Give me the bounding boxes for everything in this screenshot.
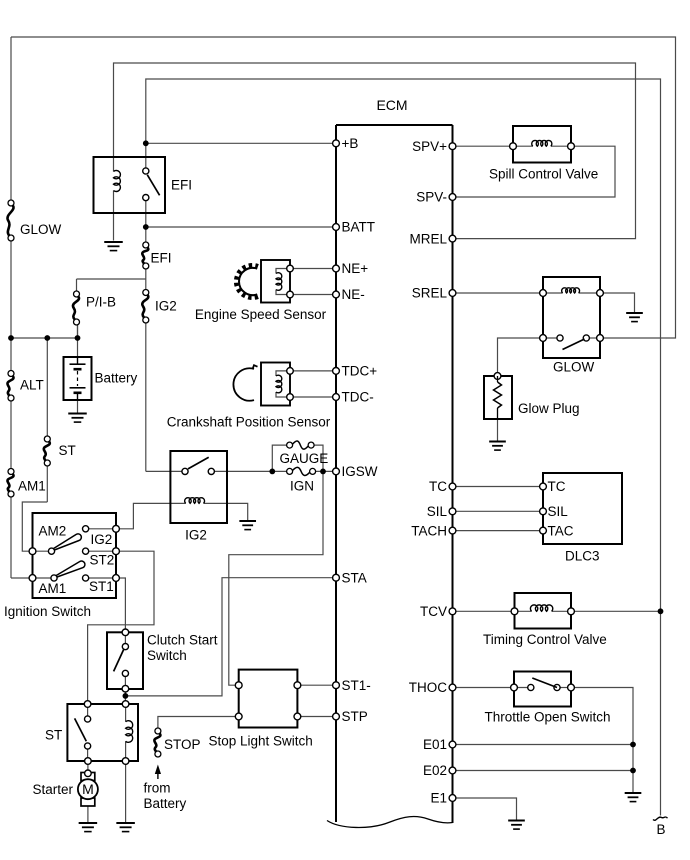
svg-text:Spill Control Valve: Spill Control Valve xyxy=(489,167,598,182)
svg-text:ST: ST xyxy=(45,728,62,743)
svg-text:SPV-: SPV- xyxy=(416,190,447,205)
svg-text:Battery: Battery xyxy=(95,371,138,386)
svg-text:AM2: AM2 xyxy=(39,524,67,539)
svg-text:IG2: IG2 xyxy=(185,528,207,543)
svg-text:Throttle Open Switch: Throttle Open Switch xyxy=(485,710,611,725)
svg-text:P/I-B: P/I-B xyxy=(86,295,116,310)
svg-text:EFI: EFI xyxy=(171,178,192,193)
svg-text:SIL: SIL xyxy=(548,504,569,519)
svg-text:STOP: STOP xyxy=(164,737,201,752)
svg-text:TACH: TACH xyxy=(411,523,447,538)
svg-text:Switch: Switch xyxy=(147,648,187,663)
svg-text:AM1: AM1 xyxy=(39,581,67,596)
svg-text:Crankshaft Position Sensor: Crankshaft Position Sensor xyxy=(167,415,331,430)
svg-text:ST1-: ST1- xyxy=(342,678,371,693)
svg-text:M: M xyxy=(82,781,94,797)
svg-text:Engine Speed Sensor: Engine Speed Sensor xyxy=(195,307,327,322)
svg-text:E1: E1 xyxy=(430,791,447,806)
svg-text:TC: TC xyxy=(429,479,447,494)
svg-text:IGSW: IGSW xyxy=(342,464,378,479)
svg-text:TC: TC xyxy=(548,479,566,494)
svg-text:GLOW: GLOW xyxy=(20,222,62,237)
svg-text:ST1: ST1 xyxy=(89,579,114,594)
svg-text:SIL: SIL xyxy=(427,504,448,519)
svg-text:IG2: IG2 xyxy=(91,532,113,547)
svg-text:B: B xyxy=(656,822,665,837)
svg-text:THOC: THOC xyxy=(409,680,447,695)
svg-text:TCV: TCV xyxy=(420,604,447,619)
svg-text:TAC: TAC xyxy=(548,523,574,538)
svg-text:STP: STP xyxy=(342,709,368,724)
svg-text:IGN: IGN xyxy=(290,479,314,494)
svg-text:Timing Control Valve: Timing Control Valve xyxy=(483,632,607,647)
svg-text:SPV+: SPV+ xyxy=(412,139,447,154)
svg-text:NE-: NE- xyxy=(342,287,365,302)
svg-text:STA: STA xyxy=(342,570,367,585)
svg-text:+B: +B xyxy=(342,136,359,151)
svg-text:EFI: EFI xyxy=(151,251,172,266)
svg-text:Starter: Starter xyxy=(33,782,74,797)
svg-text:ECM: ECM xyxy=(376,97,407,113)
svg-text:MREL: MREL xyxy=(409,231,447,246)
svg-text:from: from xyxy=(144,781,171,796)
svg-text:ST: ST xyxy=(59,443,76,458)
svg-text:IG2: IG2 xyxy=(155,299,177,314)
svg-text:DLC3: DLC3 xyxy=(565,549,600,564)
svg-text:ALT: ALT xyxy=(20,378,44,393)
svg-text:BATT: BATT xyxy=(342,220,376,235)
svg-text:Stop Light Switch: Stop Light Switch xyxy=(209,734,313,749)
svg-text:ST2: ST2 xyxy=(90,553,115,568)
svg-text:SREL: SREL xyxy=(412,286,448,301)
svg-text:E02: E02 xyxy=(423,763,447,778)
svg-text:GLOW: GLOW xyxy=(553,360,595,375)
svg-text:E01: E01 xyxy=(423,737,447,752)
svg-text:TDC-: TDC- xyxy=(342,390,374,405)
svg-text:Ignition Switch: Ignition Switch xyxy=(4,604,91,619)
svg-text:Battery: Battery xyxy=(144,796,187,811)
svg-text:NE+: NE+ xyxy=(342,261,369,276)
svg-text:Clutch Start: Clutch Start xyxy=(147,633,218,648)
svg-text:TDC+: TDC+ xyxy=(342,364,378,379)
svg-text:GAUGE: GAUGE xyxy=(280,451,329,466)
svg-text:AM1: AM1 xyxy=(18,479,46,494)
svg-text:Glow Plug: Glow Plug xyxy=(518,401,580,416)
